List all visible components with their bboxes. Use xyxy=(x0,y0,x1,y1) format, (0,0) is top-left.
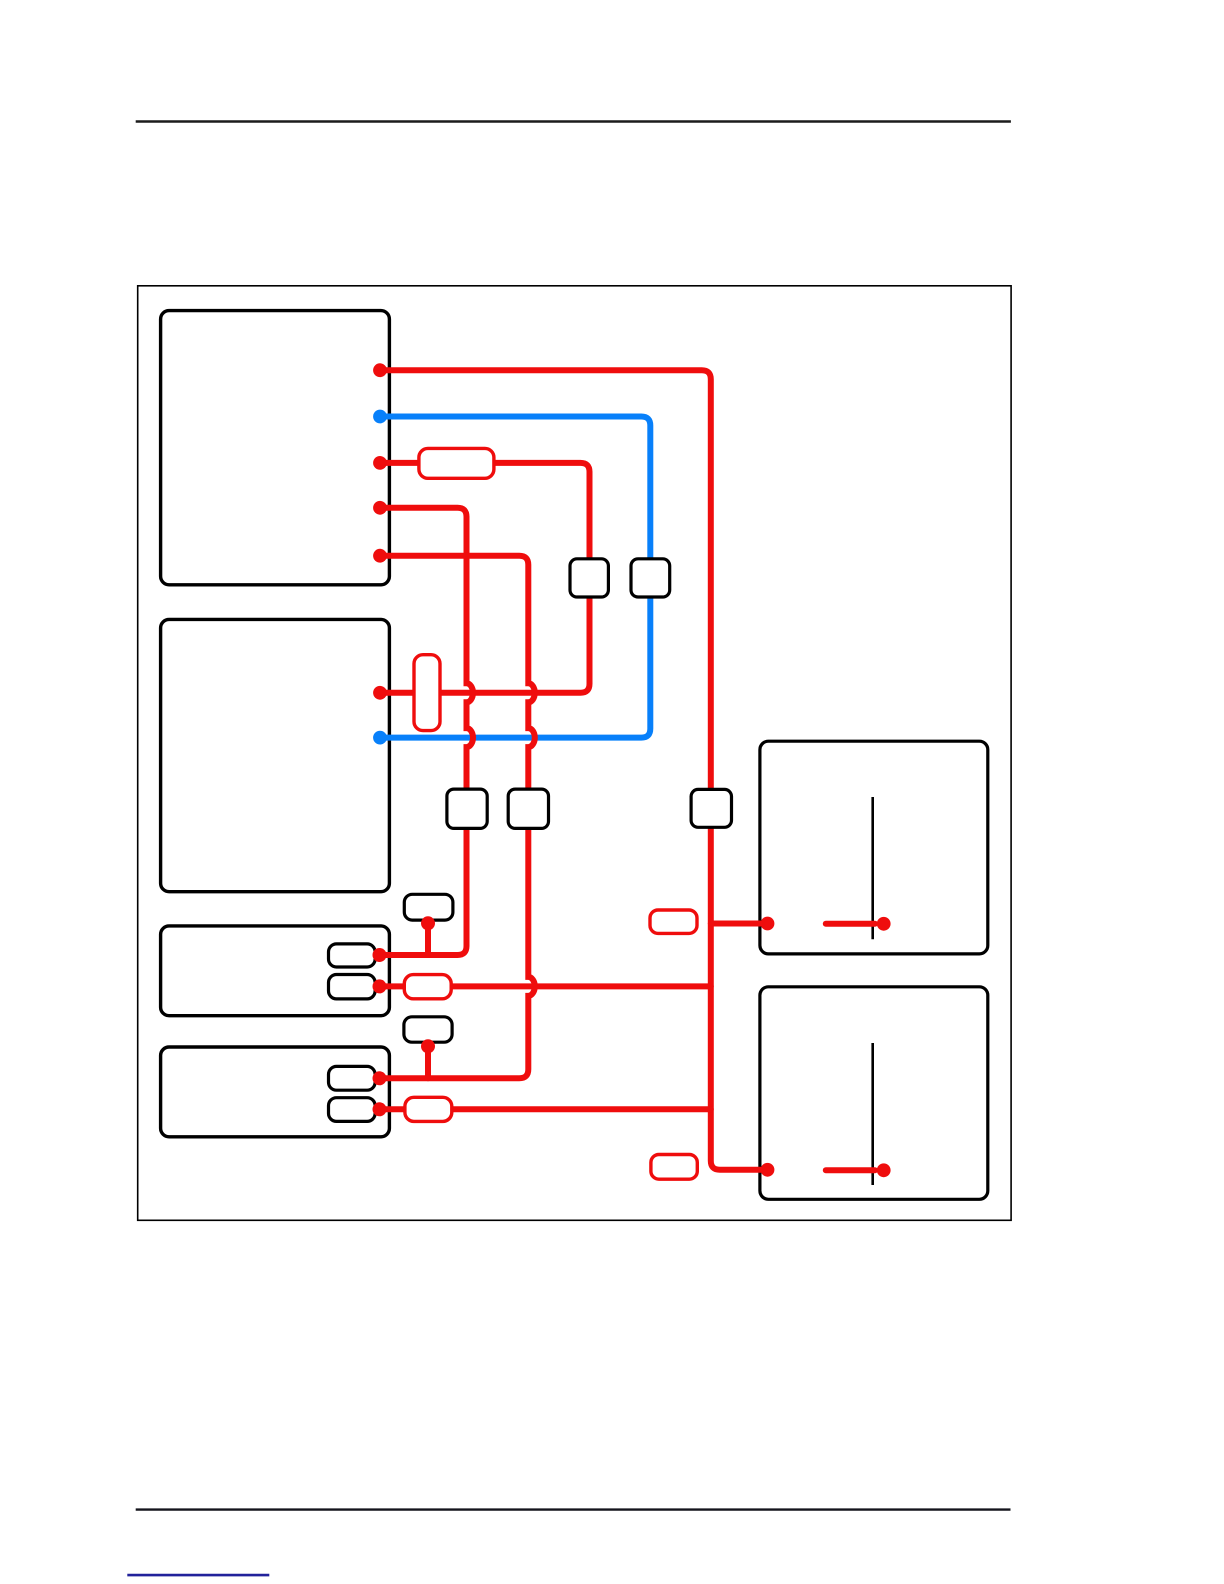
module M2 (middle left box) xyxy=(161,619,390,891)
connector C4 (black square on W6 vertical) xyxy=(508,789,548,828)
node M1 pin2 (blue) xyxy=(373,410,387,424)
connector C3 (black square on W5 vertical) xyxy=(447,789,487,828)
connector C1 (black square on W3 vertical) xyxy=(570,559,608,597)
fuse F1 (red rounded rect on W3) xyxy=(419,448,494,478)
pin rect M3-a xyxy=(329,944,376,967)
fuse F4 (red rounded rect on W9) xyxy=(405,1097,452,1121)
wire W6 (red: M1 pin5 down to M4 pin1, hops over W3, W2, W8) xyxy=(380,556,535,1079)
wire stub to connector T2 xyxy=(425,1046,431,1078)
module M3 (small left box) xyxy=(161,926,390,1016)
node relay K2 contact xyxy=(877,1163,891,1177)
wire W9 (red: M4 pin2 through fuse F4 to node on W1) xyxy=(380,1106,711,1112)
bottom footer rule xyxy=(136,1508,1011,1510)
relay K2 contact bar xyxy=(871,1043,874,1185)
terminal block T2 (small black rect above M4) xyxy=(404,1017,452,1042)
wire stub to connector T1 xyxy=(425,923,431,955)
node T1 xyxy=(421,916,435,930)
connector C2 (black square on W2 vertical) xyxy=(631,559,670,597)
node M1 pin5 xyxy=(373,549,387,563)
wire W2 (blue: M1 pin2 to M2 pin2) xyxy=(380,417,650,738)
wire W5 (red: M1 pin4 down to M3 pin1, hops over W3 and W2) xyxy=(380,508,473,955)
node M1 pin4 xyxy=(373,501,387,515)
fuse F2 (vertical red rounded rect on W3 lower run) xyxy=(414,655,440,731)
node relay K1 terminal xyxy=(761,917,775,931)
pin rect M4-b xyxy=(329,1098,376,1122)
wire W3 (red: M1 pin3 through fuse F1 to M2 pin1) xyxy=(380,463,590,693)
wire W12 (red: relay K2 internal contact) xyxy=(826,1167,875,1173)
node M3 pin1 xyxy=(373,948,387,962)
wire W11 (red: relay K1 internal contact) xyxy=(826,921,875,927)
relay K1 box xyxy=(760,741,988,954)
connector C5 (black square on W1 vertical) xyxy=(691,789,731,827)
terminal block T1 (small black rect above M3) xyxy=(404,894,453,920)
relay K1 contact bar xyxy=(871,797,874,939)
top header rule xyxy=(136,120,1011,122)
wire W8 (red: M3 pin2 through fuse F3 to node on W1) xyxy=(380,983,711,989)
module M1 (top left box) xyxy=(161,311,390,585)
fuse F3 (red rounded rect on W8) xyxy=(404,975,451,999)
wire W10 (red branch to relay K1 terminal) xyxy=(711,921,766,927)
wire W1 (red: M1 pin1 to relay K2 terminal) xyxy=(380,370,766,1170)
node T2 xyxy=(421,1039,435,1053)
pin rect M3-b xyxy=(329,975,376,999)
fuse F5 (red rounded rect beside relay K1) xyxy=(650,910,697,933)
pin rect M4-a xyxy=(329,1066,376,1090)
fuse F6 (red rounded rect beside relay K2) xyxy=(651,1155,697,1180)
relay K2 box xyxy=(760,987,988,1200)
node M1 pin3 xyxy=(373,456,387,470)
diagram frame xyxy=(138,286,1011,1221)
node M4 pin2 xyxy=(373,1102,387,1116)
node M2 pin1 xyxy=(373,686,387,700)
node relay K2 terminal xyxy=(761,1163,775,1177)
node M1 pin1 xyxy=(373,363,387,377)
node M4 pin1 xyxy=(373,1071,387,1085)
node M3 pin2 xyxy=(373,979,387,993)
node M2 pin2 (blue) xyxy=(373,731,387,745)
module M4 (bottom left box) xyxy=(161,1047,390,1137)
footer link underline (blue) xyxy=(127,1574,269,1577)
node relay K1 contact xyxy=(877,917,891,931)
